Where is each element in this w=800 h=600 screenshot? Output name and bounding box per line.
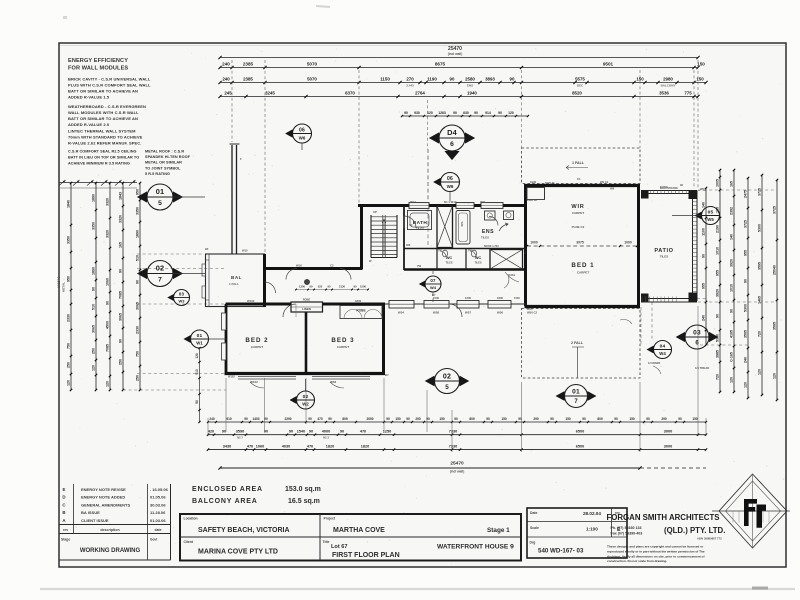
bed2 / bed3 block walls [226, 303, 386, 306]
svg-text:BA ISSUE: BA ISSUE [81, 510, 100, 515]
logo inner hatch [732, 511, 734, 523]
svg-text:Fax (07) 53390-403: Fax (07) 53390-403 [611, 532, 643, 536]
svg-text:FIRST FLOOR PLAN: FIRST FLOOR PLAN [332, 552, 400, 559]
svg-text:BALCONY AREA: BALCONY AREA [192, 498, 258, 505]
section line dashed vertical [427, 149, 429, 200]
svg-text:28.02.04: 28.02.04 [583, 511, 601, 516]
top dimension row 4 (short) [402, 115, 528, 117]
scan speckle noise [63, 46, 784, 565]
small left dim line near bed2 [199, 348, 201, 422]
svg-text:540 WD-167- 03: 540 WD-167- 03 [538, 548, 584, 555]
wall + window between bed3 and walkway [385, 303, 424, 305]
bath tub fixture [408, 211, 432, 230]
left witness lines to plan [137, 253, 204, 255]
svg-text:ENERGY NOTE REVISE: ENERGY NOTE REVISE [81, 487, 126, 492]
left vertical dimension lines [70, 183, 72, 390]
right witness lines [698, 189, 777, 191]
wall: bed1 east [637, 186, 640, 307]
section marker 02/7 [147, 261, 173, 287]
svg-text:description: description [100, 528, 119, 532]
section marker 01/7 [565, 385, 588, 408]
linen shaft with cross [437, 206, 453, 248]
svg-text:These designs and plans are co: These designs and plans are copyright an… [607, 545, 704, 549]
svg-text:WORKING DRAWING: WORKING DRAWING [80, 548, 141, 554]
svg-text:Drg: Drg [530, 541, 536, 545]
patio south edge [641, 298, 697, 300]
section marker D4/6 [439, 125, 465, 151]
svg-text:B: B [62, 510, 65, 515]
linen box between bed2/bed3 [291, 302, 323, 312]
svg-text:FORGAN SMITH ARCHITECTS: FORGAN SMITH ARCHITECTS [607, 512, 720, 522]
spa tub in ens [456, 211, 470, 245]
architect logo diamond [719, 474, 787, 548]
svg-text:1:100: 1:100 [586, 527, 598, 532]
svg-text:Govt: Govt [150, 538, 158, 542]
robe bifold doors [344, 310, 353, 319]
stair [370, 215, 372, 258]
scan artifacts: bottom streak and edge marks [40, 588, 795, 590]
patio balustrade east [692, 191, 694, 301]
bottom dimension row A (fine) [208, 421, 706, 423]
svg-text:MARTHA COVE: MARTHA COVE [333, 527, 385, 534]
patio balustrade north [641, 190, 697, 192]
wall: bath/ens block north [358, 204, 526, 207]
wall: bed1 south [525, 305, 641, 308]
svg-text:ABN 39880867 772: ABN 39880867 772 [697, 537, 722, 541]
svg-text:153.0 sq.m: 153.0 sq.m [285, 486, 321, 493]
misc leader arcs / clutter [505, 272, 519, 282]
section marker 03/6 [685, 325, 709, 349]
svg-text:Client: Client [184, 540, 194, 544]
shower with cross [490, 250, 523, 270]
bottom dimension row C [208, 449, 706, 451]
section marker 02/5 [435, 369, 460, 394]
corridor mini dim row [296, 289, 368, 291]
svg-text:Lot 67: Lot 67 [331, 544, 347, 550]
left small dimension fan [59, 182, 137, 184]
bottom dimension row B [208, 434, 706, 436]
svg-text:01.05.06: 01.05.06 [150, 495, 166, 500]
svg-text:Stage: Stage [61, 538, 70, 542]
patio posts [689, 191, 698, 200]
svg-text:construction. Do not scale fro: construction. Do not scale from drawing. [607, 559, 667, 563]
wall: big block west (ens east / bed1 west) [524, 186, 527, 307]
svg-text:MARINA COVE PTY LTD: MARINA COVE PTY LTD [198, 549, 278, 556]
svg-text:GENERAL AMENDMENTS: GENERAL AMENDMENTS [81, 502, 130, 507]
svg-text:(QLD.) PTY. LTD.: (QLD.) PTY. LTD. [664, 526, 725, 535]
svg-text:date: date [155, 528, 162, 532]
windows on bath/ens north wall [409, 203, 429, 209]
svg-text:Architect. Verify all dimensio: Architect. Verify all dimensions on site… [607, 554, 705, 558]
wc pans [442, 250, 447, 257]
wall: WIR north [524, 184, 640, 187]
wall: bath/ens block south [404, 268, 526, 270]
svg-text:Location: Location [184, 517, 198, 521]
balcony (lower left) [206, 254, 265, 307]
marker 03/W3 [174, 290, 190, 306]
svg-text:Scale: Scale [530, 526, 539, 530]
svg-text:E: E [63, 487, 66, 492]
top dimension row 1 [220, 67, 698, 69]
roof deck above WIR (dashed) [522, 148, 641, 184]
marker 07/W4 [425, 276, 441, 292]
revision table [59, 524, 171, 526]
main title block box [180, 514, 521, 561]
svg-text:ENERGY NOTE ADDED: ENERGY NOTE ADDED [81, 495, 125, 500]
windows on bed2/3 south wall (sills) [238, 376, 296, 378]
svg-text:SAFETY BEACH, VICTORIA: SAFETY BEACH, VICTORIA [198, 527, 290, 534]
west windows small marks upper (balcony wall) [202, 264, 206, 276]
smoke detector [305, 280, 310, 285]
svg-text:CLIENT ISSUE: CLIENT ISSUE [81, 518, 109, 523]
svg-text:Ph. (07) 55330 133: Ph. (07) 55330 133 [611, 526, 642, 530]
svg-text:Date: Date [530, 511, 537, 515]
svg-text:WATERFRONT HOUSE 9: WATERFRONT HOUSE 9 [437, 544, 514, 551]
page border frame [59, 43, 786, 567]
right vertical dimension lines [705, 188, 707, 345]
bottom dimension total 25470 [220, 467, 640, 469]
svg-text:ENCLOSED AREA: ENCLOSED AREA [192, 486, 263, 493]
marker 06/W6 (top) [293, 124, 312, 143]
robe strip in bed3 [340, 306, 382, 319]
top dimension row 3 [220, 96, 698, 98]
marker 04/W4 [654, 341, 672, 359]
door arcs [404, 216, 416, 228]
svg-text:D: D [62, 495, 65, 500]
svg-text:Stage 1: Stage 1 [487, 527, 510, 534]
svg-text:Title: Title [323, 540, 330, 544]
wall: bath west [403, 206, 405, 271]
chimney / flue double line [231, 145, 233, 254]
top witness lines [231, 60, 233, 142]
deck below BED1 (dashed) [522, 309, 641, 379]
ens vanities [485, 211, 496, 220]
svg-text:reproduced wholly or in part w: reproduced wholly or in part without the… [607, 549, 705, 553]
bottom witness lines [207, 418, 209, 436]
date scale drg box [527, 508, 627, 558]
svg-text:11.28.06: 11.28.06 [150, 510, 166, 515]
marker 01/W1 [191, 330, 209, 348]
marker 02/W2 [297, 391, 315, 409]
svg-text:16.5 sq.m: 16.5 sq.m [288, 498, 320, 505]
wall: stair west vertical [360, 205, 363, 270]
section marker 01/5 [147, 184, 173, 210]
wall: corridor north (balcony to stair) [265, 267, 363, 270]
logo FS glyph [744, 499, 757, 526]
corridor window row (south wall of walkway) [415, 303, 526, 305]
WIR interior door pocket [527, 188, 545, 200]
svg-text:30.03.06: 30.03.06 [150, 502, 166, 507]
patio step hatch [641, 297, 643, 303]
WIR / BED1 divider dashed with dims [527, 245, 637, 247]
svg-text:Project: Project [324, 517, 336, 521]
windows on bed2 west wall [222, 313, 227, 330]
svg-text:. 16.05.06: . 16.05.06 [150, 487, 169, 492]
marker 06/WE [441, 173, 460, 192]
wall: wc row [404, 248, 526, 250]
marker 05/W5 [702, 207, 720, 225]
top dimension row 2 [220, 82, 706, 84]
svg-text:rev: rev [63, 528, 68, 532]
svg-text:01.03.06: 01.03.06 [150, 518, 166, 523]
